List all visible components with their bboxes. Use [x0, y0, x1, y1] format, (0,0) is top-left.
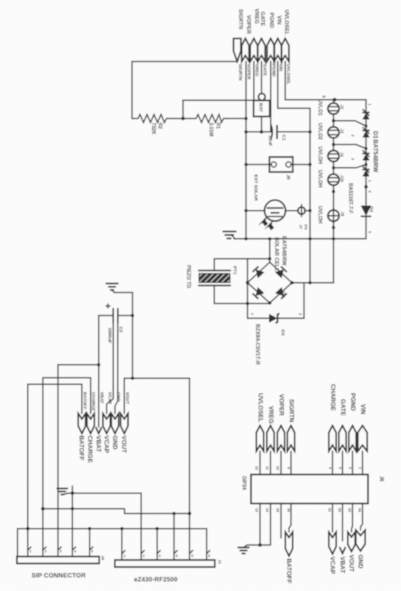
SIP pin numbers: [30, 550, 94, 554]
port flag SIGRTN (top): [234, 9, 244, 81]
wire D1a-D1b: [365, 120, 367, 131]
connector J5 SIP bar: [17, 556, 106, 564]
net flag VOUT (left): [120, 392, 130, 453]
wire UVLOSEL down and right: [285, 62, 366, 100]
wire J6 pin15 stub: [276, 504, 282, 539]
node J3/J4 tap: [332, 143, 335, 146]
wire zener rail: [248, 317, 269, 319]
node rail/ground: [244, 237, 247, 240]
capacitor C2 1000uF: [99, 304, 133, 344]
net flag VCAP (J6 pin21): [328, 504, 337, 575]
wire VBAT loop: [58, 365, 99, 557]
wire SIGRTN horizontal: [132, 62, 237, 119]
wire J4-J10: [333, 162, 335, 175]
diode D1a: [362, 110, 369, 120]
wire VREG stub: [253, 62, 255, 101]
net flag VBAT open (left): [95, 392, 105, 452]
node VOUT run at eZ430 pin5: [188, 512, 191, 515]
wire mid run A: [42, 509, 189, 514]
node UVLO column ground: [332, 237, 335, 240]
zener D3 BZX84-C5V1T-R: [250, 313, 304, 365]
diode D1d: [362, 167, 369, 177]
port flag GATE (top): [258, 12, 268, 76]
jumper J2: [328, 103, 345, 114]
port flag VIN (top): [274, 16, 283, 72]
port flag VREG (top): [250, 9, 259, 78]
wire tap3 to D1: [334, 165, 367, 168]
diode D4: [361, 206, 374, 217]
wire C2 plates down pair: [107, 323, 114, 414]
wire R2 to R1: [170, 118, 196, 120]
node C1 rail right end: [308, 130, 311, 133]
piezo PT1 plates: [185, 265, 238, 288]
wire junction up to TP box: [183, 100, 254, 118]
ground (C2): [106, 284, 119, 293]
node bridge top stub: [268, 237, 271, 240]
diode D1c: [362, 151, 369, 161]
net flag VCAP (left): [102, 392, 112, 453]
net flag GND (J6 pin24): [356, 504, 365, 569]
wire eZ430 pin3 stub: [156, 529, 158, 560]
wire J8 right: [291, 164, 310, 166]
node right rail bottom: [308, 281, 311, 284]
wire ground run to eZ430: [68, 493, 141, 560]
net flag VOUT (J6 pin23): [348, 504, 356, 573]
net flag BATOFF (left): [78, 392, 88, 461]
jumper J9: [328, 208, 345, 223]
net flag VBAT open (J6 pin22): [338, 504, 346, 574]
IC J6 DIP24 box: [241, 475, 385, 504]
node solar left: [244, 209, 247, 212]
wire CHARGE loop: [43, 378, 91, 557]
node J9 lower: [332, 226, 335, 229]
node TP1/C1 rail: [260, 130, 263, 133]
net flag GATE (J6 pin3): [338, 399, 346, 475]
node J8 right: [308, 163, 311, 166]
wire J10 to J9: [333, 185, 335, 210]
net flag VOPER (J6 pin10): [276, 394, 285, 475]
solar cell PV1: [258, 200, 286, 230]
wire R1 to VOPER rail: [226, 118, 246, 120]
wire GATE to test point: [261, 62, 263, 94]
node pin13/14 join: [258, 543, 261, 546]
resistor R2: [132, 115, 170, 135]
node R1/R2 junction: [181, 117, 184, 120]
node piezo top joins stub: [268, 257, 271, 260]
wire solar right to J7: [286, 210, 299, 212]
bridge diode top-right: [275, 266, 287, 278]
eZ430 pin numbers: [124, 554, 211, 558]
node eZ430 pin4: [172, 512, 175, 515]
node J2/J3 tap: [332, 119, 335, 122]
wire low run B: [18, 529, 207, 560]
wire VIN down: [278, 62, 310, 109]
wire solar left: [246, 210, 265, 212]
node D1 mid3: [365, 163, 368, 166]
node on VOUT run: [131, 377, 134, 380]
wire C2 gnd plate down: [115, 323, 118, 414]
node UVLOSEL wire at J2: [333, 98, 337, 102]
wire PGND down: [270, 62, 272, 132]
node eZ430 pin3: [156, 527, 159, 530]
connector J8 box: [269, 156, 293, 181]
net flag VIN (J6 pin1): [358, 404, 367, 475]
net flag CHARGE (J6 pin4): [328, 384, 336, 475]
diode D1b: [362, 128, 369, 138]
jumper J10: [328, 174, 345, 185]
test point TP1 box: [254, 100, 270, 116]
wire ground to C2 right node: [115, 293, 133, 316]
node bridge right: [290, 281, 293, 284]
node J8 left: [244, 163, 247, 166]
connector J7 PV: [298, 205, 309, 231]
wire C1 rail left: [246, 131, 272, 133]
net flag UVLOSEL (J6 pin12): [255, 393, 264, 475]
wire J2-J3: [333, 114, 335, 127]
wire SIP pin5 vertical: [89, 529, 91, 557]
node eZ430 pin1: [120, 527, 123, 530]
wire D1b to D1c: [365, 138, 367, 154]
ground (mid left): [223, 232, 237, 239]
wire SIP pin4 vertical: [71, 486, 73, 557]
wire C1 rail right: [278, 131, 310, 133]
diode bridge D2 frame: [248, 262, 292, 303]
wire ground rail: [234, 238, 366, 240]
wire C2 left down: [98, 316, 100, 365]
node J4/J10 tap: [332, 166, 335, 169]
wire tap1 to D1: [334, 121, 367, 126]
bridge diode bottom-right: [275, 287, 287, 299]
bridge diode top-left: [252, 266, 264, 278]
node run B SIP pin1: [26, 527, 29, 530]
wire zener rail right up: [303, 283, 305, 319]
SIP pin ticks: [28, 547, 93, 550]
node piezo bottom crossing: [246, 302, 249, 305]
wire TP1 to C1 rail: [261, 117, 263, 132]
bridge diode bottom-left: [252, 287, 264, 299]
wire bridge right to UVLO column link: [292, 282, 334, 284]
node D1 mid: [365, 125, 368, 128]
port flag VOPER (top): [242, 15, 252, 80]
node bridge left: [246, 281, 249, 284]
net flag PGND (J6 pin2): [348, 393, 356, 475]
ground (J6): [238, 545, 250, 554]
node J10/J9: [332, 190, 335, 193]
wire C2 right down to VOUT run: [132, 316, 134, 379]
wire D1d down: [365, 177, 367, 206]
wire J6 pin13 to ground: [255, 504, 261, 546]
eZ430 pin ticks: [122, 551, 210, 554]
node below D1: [364, 185, 367, 188]
port flag PGND (top): [267, 13, 276, 77]
wire bridge top stub: [269, 239, 271, 262]
wire VBAT down to arrow: [98, 365, 100, 427]
wire J7 to rail: [305, 210, 310, 212]
node C2 right: [131, 314, 134, 317]
wire tap2 to D1: [334, 145, 367, 149]
node rail solar row: [308, 209, 311, 212]
node bridge bottom: [268, 301, 271, 304]
node pin4 crossing: [71, 507, 74, 510]
wire UVLOSEL to J2: [333, 100, 335, 103]
wire J3-J4: [333, 138, 335, 150]
node ground run SIP pin4: [71, 491, 74, 494]
net flag SIGRTN (J6 pin9): [287, 399, 295, 475]
resistor R1: [196, 115, 226, 137]
wire D1c-D1d: [365, 161, 367, 170]
net flag CHARGE (left): [86, 392, 96, 463]
node right rail ground: [308, 237, 311, 240]
wire right rail: [309, 108, 311, 283]
node rail left C1: [244, 130, 247, 133]
connector J1 eZ430 bar: [115, 560, 223, 568]
wire eZ430 pin1 stub: [121, 529, 123, 560]
wire D4 to ground rail: [365, 216, 367, 239]
node VBAT C2: [97, 363, 100, 366]
wire J8 left: [246, 164, 271, 166]
wire D1 column top: [365, 100, 367, 113]
port flag UVLOSEL (top): [282, 10, 292, 86]
jumper J4: [328, 150, 345, 161]
wire link up to ground rail: [333, 239, 335, 283]
wire VOPER rail: [245, 62, 247, 239]
wire bridge left rail: [247, 259, 249, 319]
wire VOUT run right: [124, 378, 189, 560]
wire BATOFF loop: [28, 384, 82, 556]
jumper J3: [328, 127, 345, 138]
capacitor C1 22uF: [268, 125, 287, 146]
wire J6 pin14 to ground: [247, 504, 271, 546]
node run A on SIP pin2: [41, 507, 44, 510]
wire eZ430 pin4 stub: [173, 514, 175, 561]
wire piezo bottom: [214, 286, 269, 304]
net flag VREG (J6 pin11): [265, 406, 274, 475]
net flag BATOFF (J6 pin16): [285, 504, 293, 584]
net flag GND (left): [111, 392, 121, 450]
node run B SIP pin5: [88, 527, 91, 530]
wire piezo top: [214, 259, 269, 271]
ground (bottom left): [57, 489, 69, 495]
wire J9 to ground rail: [333, 221, 335, 239]
test point TP1 circle: [258, 94, 265, 101]
node D1 mid2: [365, 147, 368, 150]
node rail/R1: [244, 117, 247, 120]
